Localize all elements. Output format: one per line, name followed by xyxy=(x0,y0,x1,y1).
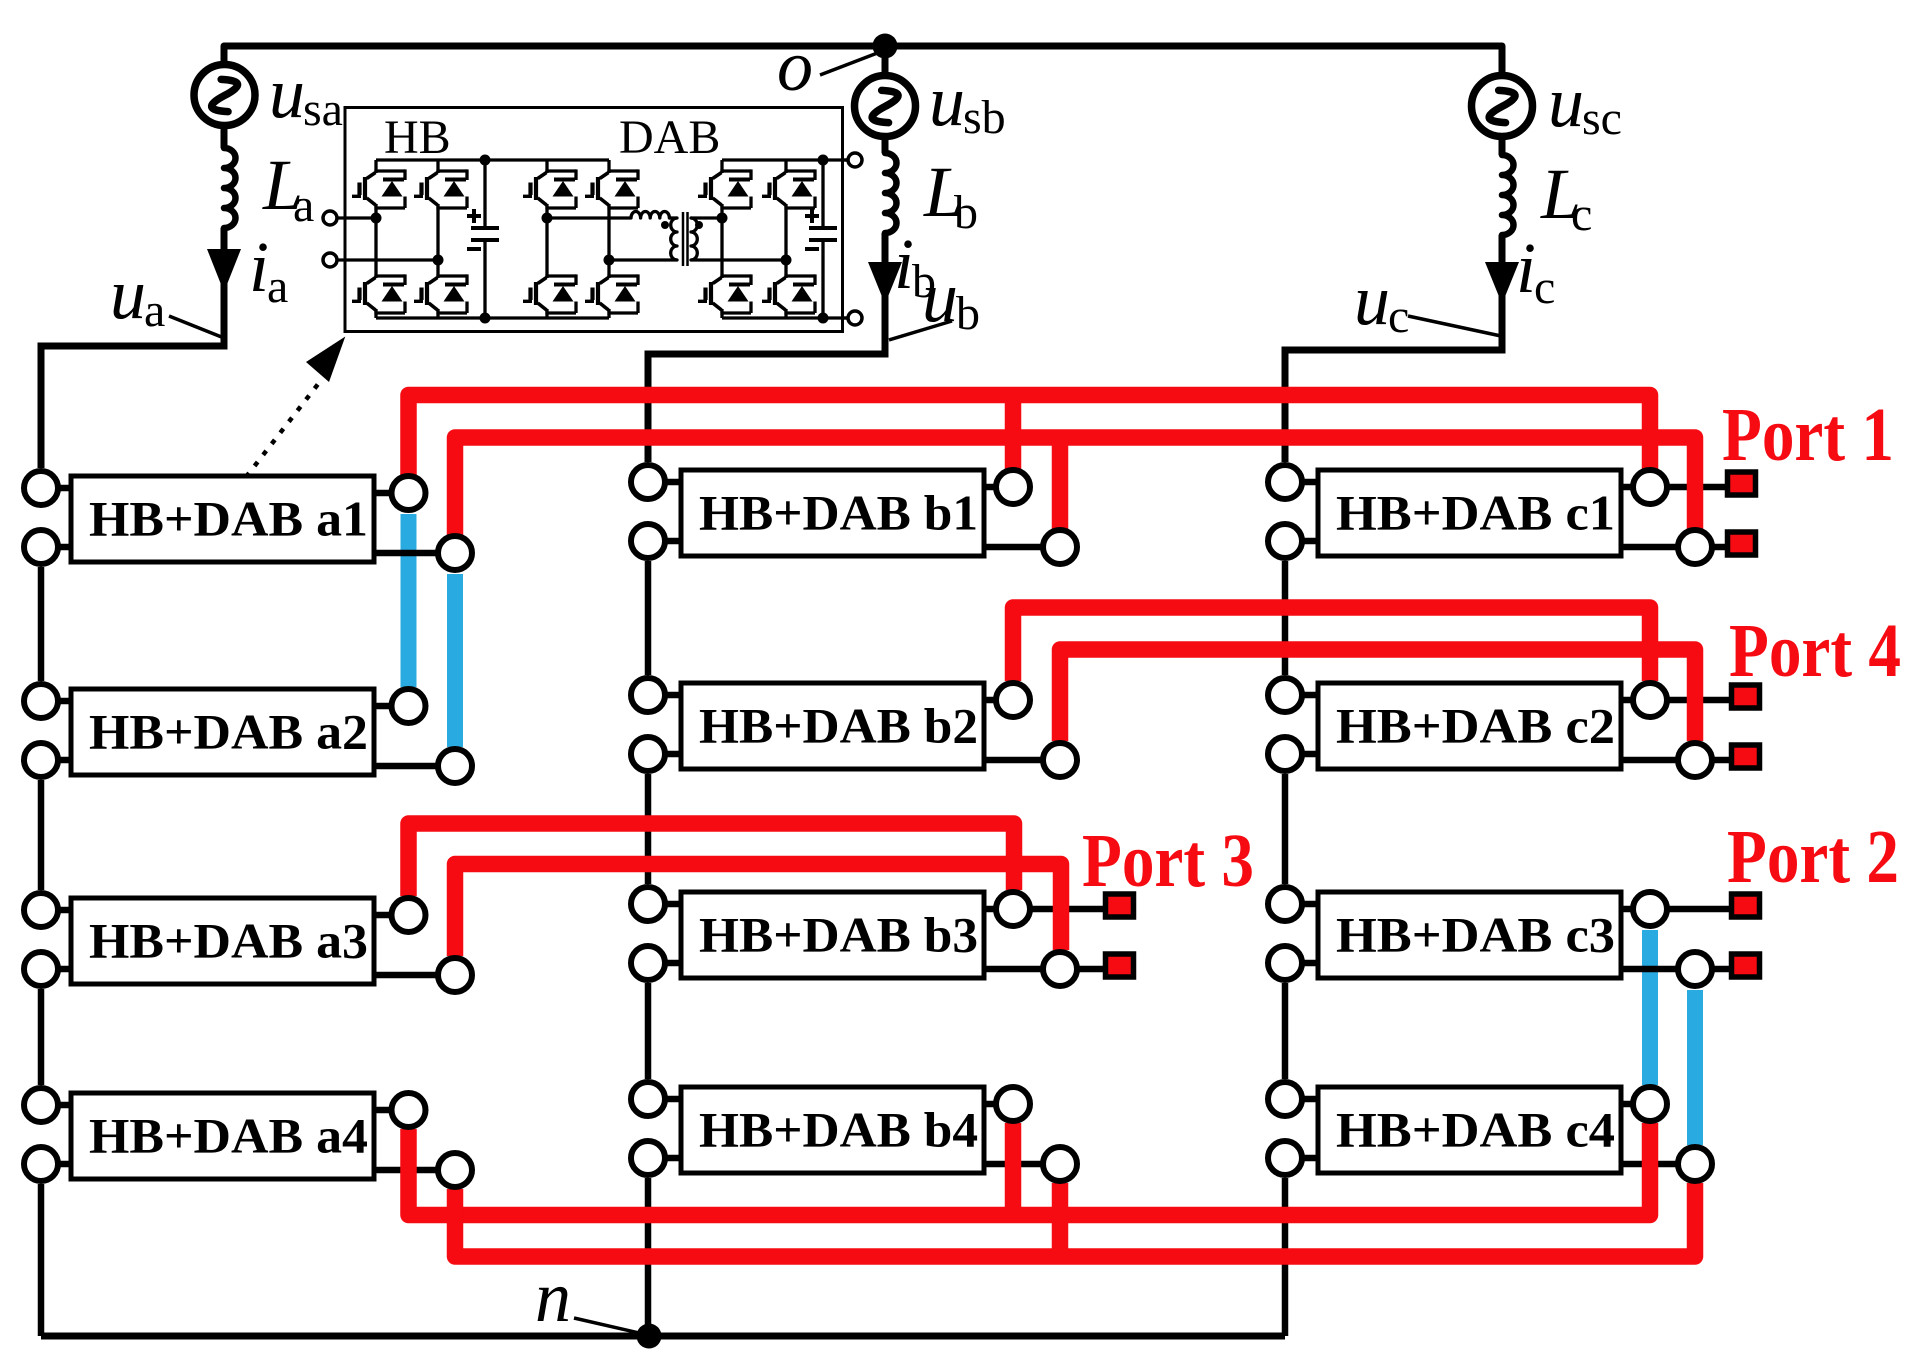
svg-text:c: c xyxy=(1571,188,1592,241)
svg-text:Port 3: Port 3 xyxy=(1082,819,1254,903)
svg-text:HB+DAB b3: HB+DAB b3 xyxy=(699,907,978,963)
svg-text:HB+DAB b2: HB+DAB b2 xyxy=(699,698,978,754)
svg-text:n: n xyxy=(535,1257,571,1337)
svg-text:a: a xyxy=(267,260,288,313)
svg-text:HB+DAB c1: HB+DAB c1 xyxy=(1336,485,1615,541)
svg-text:i: i xyxy=(894,224,914,304)
svg-text:sb: sb xyxy=(963,91,1006,144)
svg-text:HB: HB xyxy=(384,111,451,164)
svg-text:i: i xyxy=(1516,228,1536,308)
svg-text:sc: sc xyxy=(1582,92,1622,145)
svg-text:i: i xyxy=(249,227,269,307)
svg-text:Port 4: Port 4 xyxy=(1729,609,1901,693)
svg-text:HB+DAB c4: HB+DAB c4 xyxy=(1336,1102,1615,1158)
svg-text:b: b xyxy=(956,287,980,340)
svg-text:Port 2: Port 2 xyxy=(1727,815,1899,899)
svg-text:HB+DAB c2: HB+DAB c2 xyxy=(1336,698,1615,754)
svg-text:u: u xyxy=(1548,62,1584,142)
svg-text:HB+DAB a4: HB+DAB a4 xyxy=(89,1108,368,1164)
svg-text:sa: sa xyxy=(303,83,343,136)
svg-text:a: a xyxy=(293,179,314,232)
svg-text:o: o xyxy=(777,26,813,106)
svg-text:Port 1: Port 1 xyxy=(1722,393,1894,477)
svg-text:HB+DAB a2: HB+DAB a2 xyxy=(89,704,368,760)
svg-text:HB+DAB c3: HB+DAB c3 xyxy=(1336,907,1615,963)
svg-text:u: u xyxy=(110,254,146,334)
svg-text:b: b xyxy=(954,186,978,239)
svg-text:HB+DAB b4: HB+DAB b4 xyxy=(699,1102,978,1158)
svg-text:u: u xyxy=(929,61,965,141)
svg-text:c: c xyxy=(1388,290,1409,343)
svg-text:DAB: DAB xyxy=(619,111,720,164)
svg-text:HB+DAB a1: HB+DAB a1 xyxy=(89,491,368,547)
svg-text:a: a xyxy=(144,284,165,337)
svg-text:HB+DAB a3: HB+DAB a3 xyxy=(89,913,368,969)
svg-text:HB+DAB b1: HB+DAB b1 xyxy=(699,485,978,541)
svg-text:u: u xyxy=(1354,260,1390,340)
svg-text:u: u xyxy=(269,53,305,133)
svg-text:c: c xyxy=(1534,261,1555,314)
